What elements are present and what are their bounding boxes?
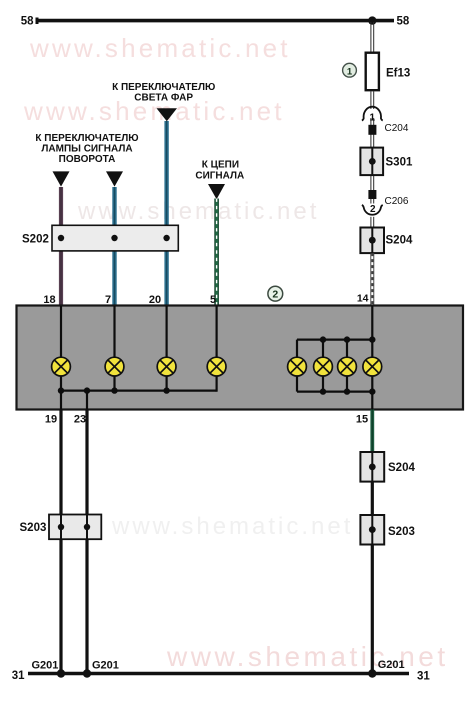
- svg-text:К ЦЕПИ: К ЦЕПИ: [202, 160, 239, 171]
- svg-text:14: 14: [357, 293, 369, 305]
- svg-text:ПОВОРОТА: ПОВОРОТА: [59, 154, 116, 165]
- svg-text:G201: G201: [92, 660, 119, 672]
- svg-text:23: 23: [74, 414, 86, 426]
- svg-text:C206: C206: [385, 196, 409, 207]
- svg-text:СВЕТА ФАР: СВЕТА ФАР: [134, 93, 193, 104]
- svg-text:СИГНАЛА: СИГНАЛА: [195, 171, 244, 182]
- svg-text:S204: S204: [386, 235, 413, 247]
- svg-text:К ПЕРЕКЛЮЧАТЕЛЮ: К ПЕРЕКЛЮЧАТЕЛЮ: [35, 133, 138, 144]
- svg-text:ЛАМПЫ СИГНАЛА: ЛАМПЫ СИГНАЛА: [41, 144, 132, 155]
- svg-text:20: 20: [149, 294, 161, 306]
- svg-text:G201: G201: [32, 660, 59, 672]
- svg-text:58: 58: [21, 16, 34, 28]
- svg-text:G201: G201: [378, 659, 405, 671]
- svg-text:1: 1: [347, 66, 353, 77]
- svg-text:www.shematic.net: www.shematic.net: [111, 513, 353, 540]
- svg-text:1: 1: [370, 113, 376, 124]
- svg-text:58: 58: [397, 16, 410, 28]
- svg-text:S301: S301: [386, 156, 413, 168]
- svg-text:К ПЕРЕКЛЮЧАТЕЛЮ: К ПЕРЕКЛЮЧАТЕЛЮ: [112, 82, 215, 93]
- svg-text:S202: S202: [22, 234, 49, 246]
- svg-text:Ef13: Ef13: [386, 68, 410, 80]
- svg-text:2: 2: [272, 289, 278, 301]
- svg-text:S203: S203: [20, 522, 47, 534]
- svg-text:S204: S204: [388, 462, 415, 474]
- svg-text:15: 15: [356, 414, 368, 426]
- svg-text:31: 31: [12, 670, 25, 682]
- svg-text:www.shematic.net: www.shematic.net: [29, 33, 291, 63]
- svg-text:2: 2: [370, 204, 376, 215]
- svg-text:S203: S203: [388, 526, 415, 538]
- svg-text:19: 19: [45, 414, 57, 426]
- svg-text:www.shematic.net: www.shematic.net: [166, 641, 449, 672]
- svg-text:18: 18: [43, 294, 55, 306]
- svg-text:7: 7: [105, 294, 111, 306]
- svg-text:31: 31: [417, 671, 430, 683]
- svg-text:5: 5: [210, 294, 216, 306]
- svg-text:C204: C204: [385, 123, 409, 134]
